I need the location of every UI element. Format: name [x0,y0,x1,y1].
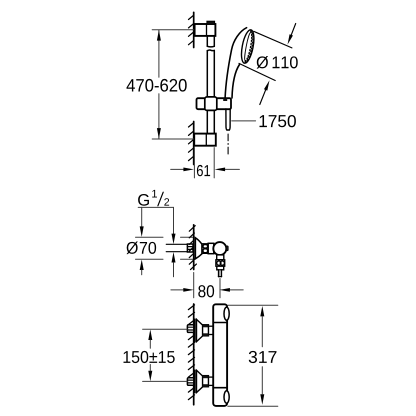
dimension 150±15: arrows [148,330,152,382]
thermostat body [213,304,227,406]
shower hose below holder [226,109,230,130]
coupling lower ring [217,266,224,270]
top wall bracket [195,24,216,36]
80 left extension (wall face) [193,273,195,298]
hex nut at wall [187,244,193,252]
label Ø 110 [257,56,298,69]
lower S-union: cone [197,370,203,392]
shower handle right edge [232,65,240,98]
label 80 [198,285,214,297]
G 1/2 leader right arm with down arrow (to pipe) [172,207,176,244]
outlet neck [217,255,224,260]
label 150±15 [124,351,175,363]
inner face rim edge [244,32,251,60]
lower S-union: knurled ring [203,376,209,387]
volume control knob [213,242,226,255]
upper S-union: connector [209,326,214,334]
dimension 61: arrows [171,168,240,172]
wall bottom segment [188,304,194,405]
label 61 [197,165,210,176]
G 1/2 leader line [138,206,173,208]
escutcheon cone [195,238,202,259]
label 470-620 [127,79,187,92]
label Ø70 [127,242,157,255]
outlet pipe [219,270,222,277]
Ø110 arrow lower [260,80,270,104]
supply pipe lines [166,244,187,251]
dimension 317: dimension line with arrows [260,306,264,405]
lower knob ellipse [224,391,229,403]
dimension 317: extension lines [228,304,278,306]
dimension 61: extension lines [193,148,195,178]
Ø70 extension lines [136,237,194,259]
upper S-union: hex nut [187,325,193,333]
upper S-union: wall disc [195,319,197,342]
lower wall bracket [194,134,216,146]
hose coupling nut with knurls [216,260,225,266]
rail top cap [207,21,215,24]
valve body [208,243,214,253]
label G 1/2 [138,190,169,206]
pipe centerline / 80 right extension [219,279,221,298]
upper knob ellipse [224,307,229,320]
upper S-union: knurled ring [203,325,209,336]
Ø70 lower-left up arrow [140,260,144,275]
head top silhouette / extension line [254,31,292,48]
Ø110 arrow upper [288,24,296,45]
wall middle segment [189,225,196,270]
head/handle outer silhouette sweep [225,28,247,98]
leader line for 1750 [232,120,256,122]
dimension 470-620: extension lines [152,29,193,31]
dimension 150±15: extension lines [143,328,188,330]
pipe lower-right up arrow [172,252,176,277]
label 317 [249,351,277,363]
wall upper segment [189,12,194,47]
slider holder on rail [197,97,232,111]
upper S-union: cone [197,319,203,341]
G 1/2 leader left arm with down arrow (to Ø70 top ext) [140,207,144,237]
lower S-union: hex nut [187,378,193,386]
wall lower segment [189,122,194,165]
nozzle dashes along right band [245,30,255,63]
hand shower head: face ring (edge-on) [239,29,256,64]
label 1750 [260,115,296,127]
lower S-union: connector [209,377,214,385]
knob stop button [226,246,228,251]
union collar with two bumps [202,244,208,254]
lower S-union: wall disc [195,370,197,393]
hose centerline dash-dot [227,134,229,154]
rail (lower part) [207,109,214,134]
rail (upper part with length break) [207,36,214,98]
head bottom silhouette / extension line [239,63,275,80]
dimension 80 arrows [171,288,243,292]
dimension 470-620: dimension line with arrows [157,30,161,139]
